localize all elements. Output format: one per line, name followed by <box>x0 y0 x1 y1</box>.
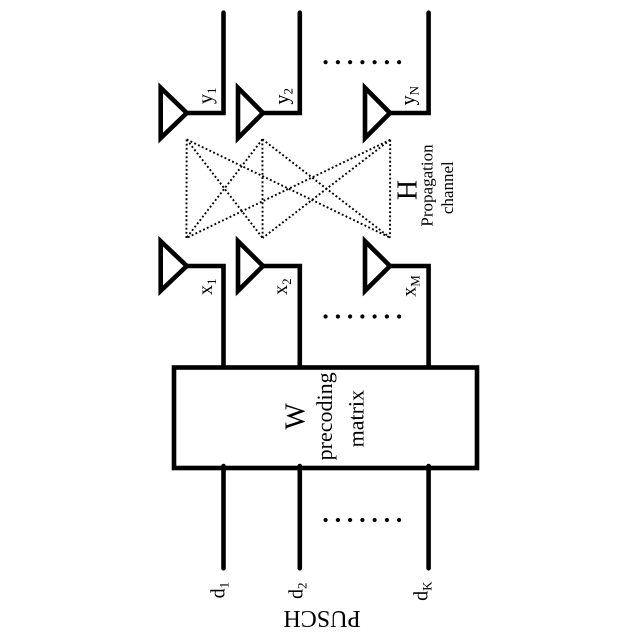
channel line R2-T1 <box>186 139 262 238</box>
ellipsis dots middle row <box>324 314 402 318</box>
svg-text:W: W <box>281 403 312 430</box>
channel line R1-T3 <box>187 140 390 238</box>
antenna RX1 <box>161 88 187 138</box>
antenna RX3 <box>365 88 390 138</box>
svg-text:PUSCH: PUSCH <box>283 605 360 631</box>
channel line R2-T2 <box>261 139 263 238</box>
wire y1 feed <box>187 13 224 113</box>
antenna RX2 <box>238 88 263 138</box>
ellipsis dots bottom row <box>324 518 402 522</box>
wire dK <box>426 466 431 568</box>
channel line R3-T1 <box>186 140 390 238</box>
wire x1 feed <box>187 266 224 369</box>
wire xM feed <box>390 266 429 369</box>
channel line R3-T3 <box>389 140 391 238</box>
precoding matrix box W <box>174 368 477 469</box>
wire d2 <box>297 466 302 568</box>
wire yN feed <box>390 13 429 113</box>
svg-text:precoding: precoding <box>312 372 337 460</box>
antenna TX2 <box>238 241 263 291</box>
svg-text:Propagation: Propagation <box>417 144 436 227</box>
antenna TX3 <box>365 241 390 291</box>
svg-text:matrix: matrix <box>343 390 368 447</box>
channel line R2-T3 <box>262 139 390 237</box>
wire x2 feed <box>263 266 300 369</box>
channel line R3-T2 <box>263 140 391 238</box>
wire d1 <box>221 466 226 568</box>
channel line R1-T2 <box>187 140 263 239</box>
channel line R1-T1 <box>185 140 187 239</box>
antenna TX1 <box>161 241 187 291</box>
ellipsis dots top row <box>324 60 402 64</box>
wire y2 feed <box>263 13 300 113</box>
svg-text:channel: channel <box>438 161 457 214</box>
